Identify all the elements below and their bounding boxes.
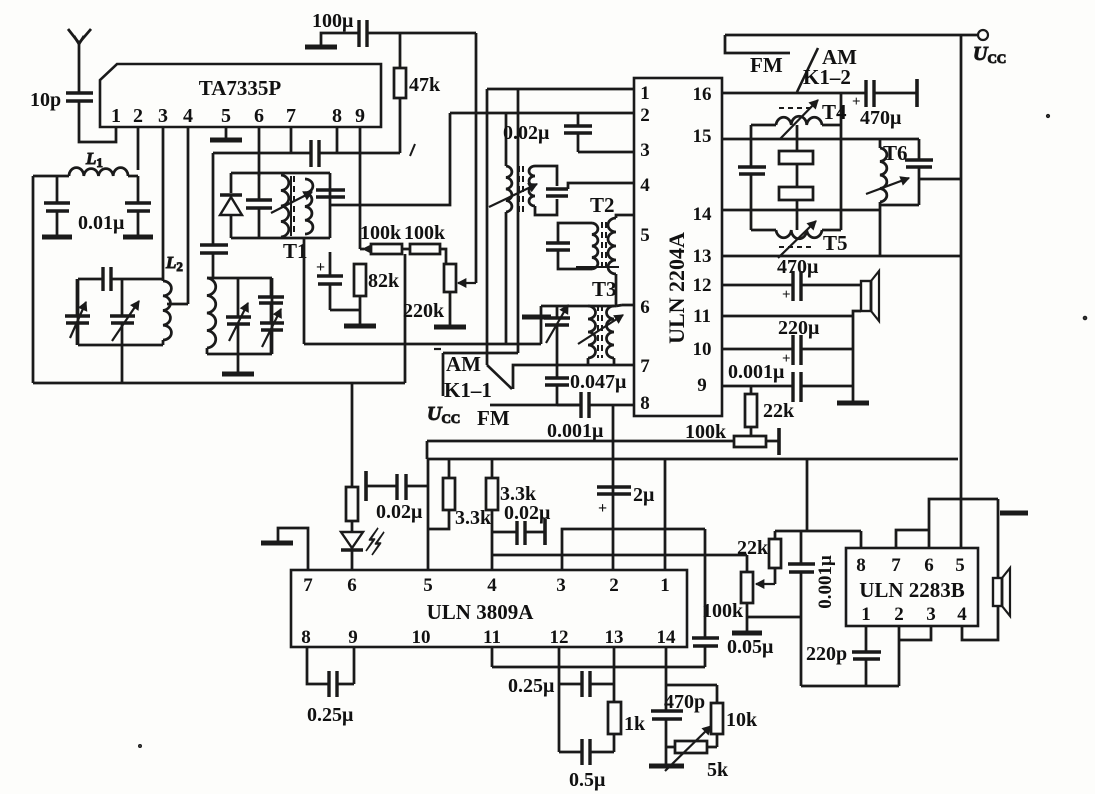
T6 top wire bbox=[880, 138, 919, 141]
svg-text:0.001μ: 0.001μ bbox=[815, 555, 836, 609]
transformer T3 secondary bbox=[607, 306, 615, 358]
wire pot2 feed bbox=[493, 554, 747, 557]
svg-text:16: 16 bbox=[693, 84, 712, 105]
T2 primary box bbox=[558, 223, 592, 269]
label T4 bbox=[822, 100, 847, 124]
resistor 47k bbox=[394, 33, 441, 153]
svg-text:1: 1 bbox=[640, 83, 650, 104]
svg-text:470μ: 470μ bbox=[860, 107, 902, 129]
svg-text:100k: 100k bbox=[360, 222, 402, 244]
resistor 22k lower bbox=[737, 531, 781, 568]
svg-text:2: 2 bbox=[894, 604, 904, 625]
IC U4 ULN2283B body bbox=[846, 548, 978, 626]
capacitor 0.047u bbox=[545, 365, 627, 405]
wire bus 476 down bbox=[475, 33, 478, 281]
inductor L1 bbox=[69, 149, 138, 176]
wire T2 sec top to pin5 bbox=[616, 215, 634, 218]
wire speaker return bbox=[853, 311, 861, 403]
svg-text:+: + bbox=[316, 259, 325, 276]
switch K1-1 contact bbox=[513, 365, 634, 389]
svg-text:3: 3 bbox=[926, 604, 936, 625]
capacitor in T1 box bbox=[246, 173, 272, 238]
svg-text:6: 6 bbox=[254, 105, 264, 127]
svg-text:14: 14 bbox=[693, 204, 713, 225]
wire L1 left bbox=[33, 176, 69, 383]
T4 slug bbox=[779, 125, 813, 164]
capacitor 0.001u vert bbox=[788, 531, 836, 686]
wire y344 net bbox=[304, 113, 541, 344]
svg-text:FM: FM bbox=[477, 406, 510, 430]
resistor 3.3k a bbox=[428, 459, 492, 529]
svg-text:2: 2 bbox=[133, 105, 143, 127]
T6 left bbox=[880, 139, 887, 256]
transformer T3 primary bbox=[588, 306, 596, 358]
wire antenna to pin1 bbox=[79, 127, 116, 142]
resistor 100k a bbox=[360, 244, 402, 254]
IC U3 ULN3809A body bbox=[291, 570, 687, 647]
ULN2204A right pin numbers bbox=[693, 84, 713, 396]
wire pin9 stub bbox=[359, 127, 362, 249]
wire pin7 2283 bbox=[896, 530, 929, 548]
wire T1 bottom drop bbox=[303, 238, 306, 344]
wire T1 top bbox=[231, 172, 330, 175]
transformer T2 primary bbox=[592, 223, 598, 269]
wire pin1 uln2204 net bbox=[487, 89, 634, 365]
svg-text:2: 2 bbox=[609, 575, 619, 596]
wiper arrow 220k bbox=[458, 279, 476, 287]
svg-text:12: 12 bbox=[550, 627, 569, 648]
capacitor 0.001u right bbox=[793, 372, 801, 402]
label Ucc bbox=[427, 403, 460, 426]
svg-text:0.02μ: 0.02μ bbox=[503, 122, 550, 144]
ground tick 2283 bbox=[998, 499, 1028, 513]
wire pin4 2283 speaker bbox=[962, 513, 998, 640]
T2 cap bbox=[546, 240, 570, 253]
speaker SP2 bbox=[993, 568, 1010, 616]
svg-text:220p: 220p bbox=[806, 643, 847, 665]
label 0.01u bbox=[78, 212, 125, 234]
T4 arrow bbox=[780, 100, 818, 139]
label L2 bbox=[165, 253, 183, 274]
svg-text:220μ: 220μ bbox=[778, 317, 820, 339]
svg-text:8: 8 bbox=[301, 627, 311, 648]
variable capacitor box2 c bbox=[260, 309, 284, 354]
switch K1-1 blade bbox=[487, 365, 512, 389]
resistor 82k bbox=[354, 264, 400, 296]
resistor 220k bbox=[403, 264, 456, 322]
capacitor box2 b bbox=[258, 278, 284, 323]
wire pin6 uln2204 bbox=[616, 305, 634, 306]
rail y441 bbox=[427, 440, 734, 443]
resistor 3.3k b bbox=[486, 459, 537, 570]
wire pin13 uln2204 bbox=[722, 255, 961, 258]
svg-text:TA7335P: TA7335P bbox=[199, 76, 282, 100]
capacitor 0.02u led bbox=[366, 471, 428, 523]
svg-text:0.01μ: 0.01μ bbox=[78, 212, 125, 234]
T6 arrow bbox=[866, 177, 909, 194]
svg-text:12: 12 bbox=[693, 275, 712, 296]
transformer T2 secondary bbox=[608, 218, 616, 274]
ground 220k bbox=[434, 310, 466, 327]
svg-text:22k: 22k bbox=[763, 400, 795, 422]
svg-text:7: 7 bbox=[303, 575, 313, 596]
ground 100u bbox=[305, 33, 359, 47]
T4 dashes bbox=[779, 107, 814, 109]
label AM K1-1 bbox=[444, 352, 492, 402]
svg-text:1k: 1k bbox=[624, 713, 646, 735]
svg-text:11: 11 bbox=[483, 627, 501, 648]
box2 bottom bbox=[207, 353, 272, 356]
svg-text:3: 3 bbox=[556, 575, 566, 596]
svg-text:5: 5 bbox=[221, 105, 231, 127]
svg-text:4: 4 bbox=[183, 105, 193, 127]
svg-text:3: 3 bbox=[158, 105, 168, 127]
ULN2204A left pin numbers bbox=[640, 83, 650, 414]
capacitor 0.01u right bbox=[123, 176, 153, 237]
capacitor 220u bbox=[782, 335, 801, 367]
svg-text:7: 7 bbox=[891, 555, 901, 576]
wire pin3 3809 net bbox=[562, 529, 705, 570]
svg-text:+: + bbox=[852, 94, 861, 110]
svg-text:9: 9 bbox=[348, 627, 358, 648]
label T5 bbox=[823, 231, 848, 255]
svg-text:ULN 2204A: ULN 2204A bbox=[664, 232, 689, 344]
svg-text:0.5μ: 0.5μ bbox=[569, 769, 606, 791]
wiper 22k bbox=[756, 568, 775, 588]
T3 variable arrow bbox=[578, 315, 623, 344]
wire pin8 stub bbox=[336, 127, 339, 153]
switch K1-2 contact FM bbox=[725, 35, 790, 53]
wire pin8 uln2204 bbox=[557, 404, 634, 407]
wire pot to cap bbox=[747, 616, 801, 619]
svg-text:K1–2: K1–2 bbox=[803, 65, 851, 89]
FM det secondary loop bbox=[535, 166, 557, 215]
svg-text:5: 5 bbox=[955, 555, 965, 576]
svg-text:1: 1 bbox=[111, 105, 121, 127]
wire 100u to bus bbox=[367, 32, 476, 35]
capacitor box1 top bbox=[103, 267, 111, 291]
LED D2 bbox=[341, 521, 363, 570]
T5 dashes bbox=[779, 246, 814, 248]
IC U2 ULN2204A body bbox=[634, 78, 722, 416]
wire led drop bbox=[351, 383, 354, 487]
wire pin3 uln2204 bbox=[578, 151, 634, 154]
wire pin4 uln2204 bbox=[568, 183, 634, 189]
ULN3809A top pin numbers bbox=[303, 575, 670, 596]
svg-text:5: 5 bbox=[423, 575, 433, 596]
T4T5 box right bbox=[840, 92, 843, 230]
svg-text:10: 10 bbox=[412, 627, 431, 648]
svg-text:22k: 22k bbox=[737, 537, 769, 559]
box2 right bbox=[271, 278, 274, 354]
wire pin9 uln2204 bbox=[722, 385, 853, 388]
box1 bottom bbox=[78, 344, 163, 347]
svg-text:4: 4 bbox=[957, 604, 967, 625]
capacitor 470u top bbox=[852, 79, 917, 129]
svg-text:220k: 220k bbox=[403, 300, 445, 322]
svg-text:T4: T4 bbox=[822, 100, 847, 124]
wire pin3 stub bbox=[162, 127, 165, 281]
variable capacitor box2 a bbox=[226, 278, 251, 354]
svg-text:1: 1 bbox=[660, 575, 670, 596]
ground 470p bbox=[649, 764, 684, 769]
svg-text:15: 15 bbox=[693, 126, 712, 147]
svg-text:FM: FM bbox=[750, 53, 783, 77]
capacitor 10p bbox=[30, 89, 93, 127]
capacitor 0.01u left bbox=[42, 176, 72, 237]
capacitor 0.02u top bbox=[503, 113, 592, 152]
label 0.001u right bbox=[728, 361, 785, 383]
capacitor electrolytic 82k bbox=[316, 252, 360, 310]
svg-text:82k: 82k bbox=[368, 270, 400, 292]
wire rail drop 807 bbox=[806, 459, 809, 531]
transformer T5 bbox=[751, 230, 841, 239]
svg-text:T3: T3 bbox=[592, 277, 617, 301]
svg-text:+: + bbox=[598, 500, 607, 517]
wire T1 right to pin2 net bbox=[330, 113, 450, 205]
label FM k12 bbox=[750, 53, 783, 77]
transformer T1 primary bbox=[281, 175, 289, 237]
capacitor 0.5u bbox=[559, 684, 614, 791]
ground 82k bbox=[344, 296, 376, 326]
wire pin3 2283 bbox=[899, 626, 931, 640]
resistor 22k right bbox=[745, 386, 795, 436]
transformer T4 bbox=[751, 116, 841, 125]
T3 top wire bbox=[541, 305, 616, 308]
svg-text:100k: 100k bbox=[404, 222, 446, 244]
capacitor 0.001u mid bbox=[547, 392, 604, 442]
FM det coil a bbox=[506, 166, 512, 212]
svg-text:4: 4 bbox=[640, 175, 650, 196]
wire ucc k11 feed bbox=[434, 89, 518, 396]
variable capacitor box1 b bbox=[110, 279, 139, 345]
wire rail y383 bbox=[33, 382, 405, 385]
label 100k pot bbox=[685, 421, 727, 443]
wire pin2 stub bbox=[137, 127, 140, 170]
T6 cap right bbox=[905, 139, 933, 205]
wire pin4 stub bbox=[187, 127, 190, 304]
switch K1-2 blade bbox=[797, 48, 818, 92]
T5 arrow bbox=[778, 221, 816, 258]
T1 core dashes bbox=[291, 176, 294, 236]
LED arrows bbox=[366, 528, 384, 555]
wire bus ucc down bbox=[960, 35, 963, 548]
resistor 100k b bbox=[402, 244, 446, 264]
wire pin1 3809 feed bbox=[664, 459, 667, 570]
capacitor 220p bbox=[806, 626, 881, 686]
wire pin14 uln2204 bbox=[722, 209, 880, 212]
ground box2 bbox=[222, 354, 254, 374]
speaker SP1 bbox=[861, 271, 879, 321]
svg-text:0.25μ: 0.25μ bbox=[307, 704, 354, 726]
label T6 bbox=[883, 141, 908, 165]
T2 core dashes bbox=[602, 222, 606, 270]
wire pin2 2283 bbox=[898, 626, 901, 686]
T3 core dashes bbox=[598, 305, 602, 358]
wire bottom rail 2283 bbox=[801, 685, 899, 688]
wire pin11 uln2204 bbox=[722, 315, 853, 318]
svg-text:7: 7 bbox=[640, 356, 650, 377]
wire 22k top bbox=[775, 530, 861, 533]
T5 slug bbox=[779, 187, 813, 230]
ground bar T3 bbox=[522, 315, 551, 320]
capacitor 0.02u b bbox=[492, 502, 551, 545]
svg-text:100μ: 100μ bbox=[312, 10, 354, 32]
wire box1 to rail bbox=[121, 345, 124, 383]
wire T2 sec bottom bbox=[615, 274, 618, 306]
svg-text:10: 10 bbox=[693, 339, 712, 360]
wire T3 bottoms bbox=[588, 358, 614, 365]
FM det coil b bbox=[529, 166, 535, 206]
svg-text:100k: 100k bbox=[702, 600, 744, 622]
svg-text:6: 6 bbox=[640, 297, 650, 318]
svg-text:10p: 10p bbox=[30, 89, 61, 111]
svg-text:0.05μ: 0.05μ bbox=[727, 636, 774, 658]
svg-text:11: 11 bbox=[693, 306, 711, 327]
IC U1 TA7335P body bbox=[100, 64, 381, 127]
wire T2 prim bottom bbox=[577, 267, 619, 269]
wire pin4 to L2 bbox=[167, 303, 188, 306]
resistor 5k variable bbox=[665, 726, 729, 781]
svg-text:T2: T2 bbox=[590, 193, 615, 217]
wire pin8 to pin2 3809 net bbox=[612, 405, 615, 570]
box1 left bbox=[77, 279, 80, 345]
svg-text:6: 6 bbox=[347, 575, 357, 596]
cap above box2 bbox=[200, 153, 228, 278]
wire T6 out bbox=[919, 178, 961, 181]
label FM bbox=[477, 406, 510, 430]
svg-text:5k: 5k bbox=[707, 759, 729, 781]
svg-text:+: + bbox=[782, 287, 791, 303]
inductor L2 bbox=[163, 281, 171, 345]
svg-text:470μ: 470μ bbox=[777, 256, 819, 278]
resistor 10k bbox=[666, 685, 758, 747]
resistor 1k bbox=[608, 647, 646, 735]
label 470u mid bbox=[777, 256, 819, 278]
label 100k 100k bbox=[360, 222, 446, 244]
ground pin5 bbox=[210, 127, 242, 140]
speck marks bbox=[139, 114, 1087, 747]
FM det core dashes bbox=[519, 166, 523, 212]
svg-text:9: 9 bbox=[355, 105, 365, 127]
svg-text:ULN 3809A: ULN 3809A bbox=[427, 600, 535, 624]
wire pin6 2283 bbox=[929, 499, 998, 548]
svg-text:0.02μ: 0.02μ bbox=[376, 501, 423, 523]
tuned box1 top bbox=[78, 278, 163, 281]
resistor led bbox=[346, 487, 358, 521]
ground pot lower bbox=[732, 603, 762, 633]
svg-text:13: 13 bbox=[605, 627, 624, 648]
svg-text:2μ: 2μ bbox=[633, 484, 655, 506]
capacitor pin7-8 bbox=[311, 140, 319, 167]
capacitor 0.25u b bbox=[508, 647, 614, 697]
svg-text:3: 3 bbox=[640, 140, 650, 161]
pot 100k upper bbox=[734, 428, 779, 455]
T6 bottom wire bbox=[880, 204, 919, 207]
wire 100k junction down bbox=[404, 254, 407, 383]
wire top rail bbox=[725, 34, 979, 37]
svg-text:7: 7 bbox=[286, 105, 296, 127]
variable capacitor box1 a bbox=[65, 279, 90, 345]
wire pin2 uln2204 net bbox=[450, 112, 634, 115]
wire pin16 uln2204 bbox=[722, 92, 866, 95]
svg-text:1: 1 bbox=[861, 604, 871, 625]
label T2 bbox=[590, 193, 615, 217]
svg-text:K1–1: K1–1 bbox=[444, 378, 492, 402]
T1 variable arrow bbox=[271, 192, 312, 213]
capacitor 2u bbox=[597, 484, 655, 517]
box2 top bbox=[207, 277, 272, 280]
ULN2283B top pin numbers bbox=[856, 555, 965, 576]
wire pin12 speaker bbox=[722, 284, 861, 287]
terminal Ucc bbox=[973, 30, 1006, 66]
capacitor 100u bbox=[312, 10, 367, 47]
label T1 bbox=[283, 239, 308, 263]
wire pin6 stub bbox=[258, 127, 261, 176]
wire pin8 2283 stub bbox=[860, 531, 863, 548]
wire pin7 stub bbox=[290, 127, 293, 153]
capacitor 0.05u bbox=[692, 529, 774, 667]
svg-text:AM: AM bbox=[446, 352, 481, 376]
variable capacitor T3 bbox=[544, 305, 570, 365]
svg-text:9: 9 bbox=[697, 375, 707, 396]
wire pin15 uln2204 bbox=[722, 138, 880, 141]
svg-text:T5: T5 bbox=[823, 231, 848, 255]
svg-text:0.001μ: 0.001μ bbox=[728, 361, 785, 383]
ULN3809A bottom pin numbers bbox=[301, 627, 676, 648]
svg-text:8: 8 bbox=[332, 105, 342, 127]
svg-text:5: 5 bbox=[640, 225, 650, 246]
stray slash mark bbox=[410, 144, 415, 156]
rail y459 bbox=[427, 441, 958, 459]
label AM K1-2 bbox=[803, 45, 857, 89]
wire y153 row bbox=[213, 152, 400, 155]
capacitor T1 right bbox=[316, 173, 345, 238]
svg-text:0.047μ: 0.047μ bbox=[570, 371, 627, 393]
svg-text:13: 13 bbox=[693, 246, 712, 267]
antenna bbox=[68, 29, 91, 92]
label T3 bbox=[592, 277, 617, 301]
svg-text:0.001μ: 0.001μ bbox=[547, 420, 604, 442]
svg-text:0.25μ: 0.25μ bbox=[508, 675, 555, 697]
FM det arrow bbox=[489, 184, 537, 207]
capacitor 470p bbox=[651, 647, 705, 766]
wire T1 bottom bbox=[231, 237, 330, 240]
ground pin7 3809 bbox=[261, 528, 308, 570]
box2 coil bbox=[207, 278, 216, 354]
svg-text:ULN 2283B: ULN 2283B bbox=[859, 578, 965, 602]
wire pin11 bottom bbox=[492, 647, 705, 667]
slug stem mid bbox=[796, 164, 799, 187]
svg-text:47k: 47k bbox=[409, 74, 441, 96]
transformer T1 secondary bbox=[305, 179, 313, 234]
TA7335P pin numbers bbox=[111, 105, 365, 127]
pot 100k lower bbox=[702, 555, 753, 622]
FM det cap bbox=[546, 189, 568, 196]
svg-text:4: 4 bbox=[487, 575, 497, 596]
svg-text:8: 8 bbox=[856, 555, 866, 576]
svg-text:2: 2 bbox=[640, 105, 650, 126]
diode D1 bbox=[220, 173, 242, 238]
wire pin5 3809 feed bbox=[427, 459, 430, 570]
capacitor 470u mid bbox=[782, 271, 801, 303]
ULN2283B bottom pin numbers bbox=[861, 604, 967, 625]
svg-text:14: 14 bbox=[657, 627, 677, 648]
T4T5 box left bbox=[738, 125, 766, 230]
wire FM contact bbox=[490, 404, 579, 407]
svg-text:6: 6 bbox=[924, 555, 934, 576]
ground speaker bbox=[837, 401, 869, 406]
